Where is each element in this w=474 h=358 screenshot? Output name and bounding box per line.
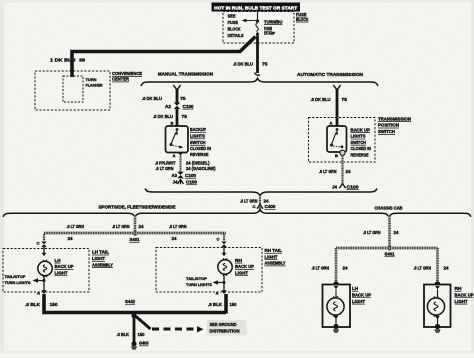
svg-text:G408: G408: [139, 341, 149, 346]
svg-text:24: 24: [172, 236, 178, 241]
wire .8 DK BLU 75 from fuse (thick) with end curl: [256, 36, 259, 73]
svg-text:B: B: [171, 121, 174, 126]
wire .8 LT GRN 24 (automatic output): [341, 155, 343, 183]
connector pin C (LH): [41, 242, 47, 248]
chassis RH back up light housing: [424, 285, 451, 328]
svg-text:.8 LT GRN: .8 LT GRN: [240, 198, 258, 203]
svg-text:ASSEMBLY: ASSEMBLY: [265, 261, 286, 266]
svg-text:C100: C100: [183, 104, 195, 109]
fuse TURN/BU 15 AMP element: [257, 12, 259, 22]
brace merging manual/automatic into one wire: [145, 189, 377, 196]
wire .8 LT GRN 24 to chassis LH lamp: [335, 248, 338, 283]
svg-text:15 AMP: 15 AMP: [264, 31, 275, 35]
wire .8 DK BLU 75 below C100: [176, 109, 179, 127]
svg-text:.8 LT GRN: .8 LT GRN: [312, 266, 330, 271]
svg-text:BACK UP: BACK UP: [55, 264, 74, 269]
svg-text:TURN: TURN: [86, 77, 97, 82]
svg-text:BACK UP: BACK UP: [351, 127, 371, 132]
wire drop to RH tail lamp: [223, 234, 225, 241]
svg-text:SWITCH: SWITCH: [190, 140, 206, 145]
svg-text:24: 24: [68, 236, 74, 241]
svg-text:LIGHT: LIGHT: [235, 270, 248, 275]
svg-text:75: 75: [262, 62, 268, 67]
svg-text:BACK UP: BACK UP: [352, 292, 371, 297]
svg-text:TURN/BU: TURN/BU: [264, 19, 283, 24]
wire: 1 DK BLU 38 feed to convenience center (thick): [72, 37, 256, 78]
convenience center dashed box: [35, 71, 110, 110]
wire below RH lamp with tail/stop branch node: [223, 274, 225, 291]
svg-text:TURN LIGHTS: TURN LIGHTS: [5, 280, 31, 285]
chassis RH lamp terminals and bulb: [435, 281, 440, 285]
power feed banner: HOT IN RUN, BULB TEST OR START: [212, 3, 301, 12]
svg-text:CLOSED IN: CLOSED IN: [351, 146, 372, 151]
splice S401 (chassis cab): [387, 246, 392, 251]
svg-text:CENTER: CENTER: [112, 77, 130, 82]
LH tail light assembly dashed box: [3, 249, 89, 293]
svg-text:RH: RH: [455, 286, 462, 291]
svg-text:75: 75: [342, 97, 348, 102]
svg-text:J4: J4: [173, 179, 179, 184]
note SEE GROUND DISTRIBUTION: [207, 320, 247, 336]
svg-text:POSITION: POSITION: [378, 123, 399, 128]
svg-text:REVERSE: REVERSE: [190, 152, 209, 157]
svg-text:SPORTSIDE, FLEETSIDE/WIDESIDE: SPORTSIDE, FLEETSIDE/WIDESIDE: [99, 204, 176, 209]
wire drop to LH tail lamp: [43, 234, 45, 241]
svg-text:LIGHTS: LIGHTS: [190, 134, 205, 139]
ground wire .8 BLK 150 from RH lamp (thick): [224, 294, 228, 314]
connector pin C (RH): [221, 242, 227, 248]
pointer from note to fuse: [246, 20, 258, 22]
svg-text:38: 38: [79, 58, 86, 63]
wire .8 PPL/WHT / .8 LT GRN (manual output): [180, 156, 182, 173]
svg-text:.8 LT GRN: .8 LT GRN: [67, 224, 85, 229]
connector C100 pin J4 (manual): [178, 180, 184, 184]
svg-text:A: A: [37, 290, 40, 295]
ground wire .8 BLK 150 from LH lamp (thick): [44, 294, 226, 313]
svg-text:ASSEMBLY: ASSEMBLY: [92, 262, 113, 267]
branch arrow to RH tail/stop turn lights: [214, 282, 224, 284]
svg-text:TAIL/STOP: TAIL/STOP: [186, 276, 207, 281]
svg-text:24: 24: [346, 169, 352, 174]
svg-text:BLOCK: BLOCK: [296, 17, 309, 22]
svg-text:24 (DIESEL): 24 (DIESEL): [186, 160, 210, 165]
wire .8 LT GRN 24 to C400: [259, 195, 261, 211]
svg-text:SEE: SEE: [228, 14, 236, 19]
svg-text:C100: C100: [185, 173, 197, 178]
svg-text:SEE GROUND: SEE GROUND: [210, 322, 237, 327]
splice S442: [131, 313, 136, 318]
svg-text:CLOSED IN: CLOSED IN: [190, 146, 211, 151]
RH tail light assembly dashed box: [156, 248, 262, 293]
terminal into LH backup lamp: [42, 253, 47, 256]
svg-text:DISTRIBUTION: DISTRIBUTION: [210, 329, 240, 334]
chassis cab crossover wire: [336, 247, 438, 250]
svg-text:MANUAL TRANSMISSION: MANUAL TRANSMISSION: [158, 71, 214, 76]
svg-text:C100: C100: [186, 179, 198, 184]
svg-text:BACKUP: BACKUP: [190, 127, 206, 132]
switch blade (automatic): [336, 128, 339, 131]
svg-text:FLASHER: FLASHER: [86, 83, 103, 88]
svg-text:.8 DK BLU: .8 DK BLU: [142, 96, 162, 101]
backup lights switch box (automatic): [327, 126, 347, 152]
svg-text:.8 DK BLU: .8 DK BLU: [153, 114, 173, 119]
svg-text:24: 24: [264, 198, 270, 203]
svg-text:.8 BLK: .8 BLK: [208, 302, 222, 307]
svg-text:CONVENIENCE: CONVENIENCE: [112, 71, 142, 76]
svg-text:LIGHT: LIGHT: [92, 256, 105, 261]
svg-text:A2: A2: [165, 104, 172, 109]
svg-text:BACK UP: BACK UP: [235, 264, 254, 269]
manual branch wire top hook: [174, 85, 181, 90]
svg-text:RH TAIL: RH TAIL: [265, 248, 283, 253]
svg-text:TURN LIGHTS: TURN LIGHTS: [186, 282, 212, 287]
transmission position switch dashed box: [309, 118, 376, 163]
RH backup light bulb: [218, 260, 232, 274]
automatic branch wire top hook: [334, 85, 341, 90]
svg-text:C: C: [253, 204, 256, 209]
backup lights switch box (manual): [166, 126, 189, 153]
wire .8 LT GRN 24 drop to S401 (chassis cab): [388, 216, 391, 247]
svg-text:S401: S401: [385, 251, 396, 256]
brace splitting to sportside and chassis cab: [3, 210, 471, 218]
svg-text:150: 150: [50, 302, 59, 307]
LH backup light bulb: [38, 261, 52, 275]
svg-text:DETAILS: DETAILS: [228, 33, 244, 38]
svg-text:24 (GASOLINE): 24 (GASOLINE): [186, 166, 216, 171]
svg-text:J4: J4: [332, 184, 338, 189]
svg-text:75: 75: [182, 114, 188, 119]
brace splitting to manual / automatic branches: [141, 78, 378, 86]
svg-text:C400: C400: [265, 204, 277, 209]
svg-text:75: 75: [180, 96, 186, 101]
svg-text:.8 LT GRN: .8 LT GRN: [112, 224, 130, 229]
switch blade (manual): [176, 128, 179, 131]
connector C400 pin C: [257, 205, 263, 209]
svg-text:.8 PPL/WHT: .8 PPL/WHT: [155, 160, 176, 165]
svg-text:150: 150: [138, 332, 146, 337]
svg-text:A: A: [216, 290, 219, 295]
svg-text:LH: LH: [55, 258, 61, 263]
svg-text:REVERSE: REVERSE: [351, 152, 369, 157]
sportside rear crossover wire .8 LT GRN: [44, 232, 226, 235]
svg-text:S401: S401: [130, 237, 141, 242]
svg-text:BACK UP: BACK UP: [455, 292, 474, 297]
svg-text:24: 24: [444, 266, 450, 271]
svg-text:.8 BLK: .8 BLK: [25, 302, 40, 307]
svg-text:.8 DK BLU: .8 DK BLU: [233, 62, 253, 67]
svg-text:FUSE: FUSE: [228, 20, 239, 25]
svg-text:LIGHT: LIGHT: [455, 299, 468, 304]
svg-text:.8 LT GRN: .8 LT GRN: [156, 166, 174, 171]
connector C100 pin A2: [174, 103, 181, 110]
svg-text:TRANSMISSION: TRANSMISSION: [378, 116, 411, 121]
wire .8 LT GRN 24 to chassis RH lamp: [436, 248, 439, 283]
svg-text:LIGHTS: LIGHTS: [351, 134, 366, 139]
svg-text:24: 24: [343, 266, 349, 271]
branch arrow to LH tail/stop turn lights: [34, 280, 44, 282]
svg-text:AUTOMATIC TRANSMISSION: AUTOMATIC TRANSMISSION: [297, 72, 364, 77]
connector C100 pin A3: [177, 172, 184, 179]
svg-text:LIGHT: LIGHT: [55, 270, 68, 275]
svg-text:.8 BLK: .8 BLK: [117, 332, 130, 337]
turn flasher dashed box: [63, 76, 83, 102]
svg-text:RH: RH: [235, 258, 242, 263]
svg-text:SWITCH: SWITCH: [351, 140, 367, 145]
terminal into RH backup lamp: [222, 253, 227, 256]
svg-text:C: C: [217, 236, 220, 241]
ground G408: [131, 341, 136, 346]
svg-text:1 DK BLU: 1 DK BLU: [50, 58, 76, 63]
svg-text:LIGHT: LIGHT: [352, 299, 365, 304]
svg-text:A: A: [173, 153, 176, 158]
dashed link to ground distribution: [136, 317, 151, 330]
svg-text:FUSE: FUSE: [264, 26, 272, 31]
svg-text:LH TAIL: LH TAIL: [92, 250, 109, 255]
svg-text:TAIL/STOP: TAIL/STOP: [5, 274, 26, 279]
svg-text:HOT IN RUN, BULB TEST OR START: HOT IN RUN, BULB TEST OR START: [214, 5, 297, 10]
svg-text:24: 24: [394, 230, 400, 235]
svg-text:C: C: [37, 240, 40, 245]
svg-text:BLOCK: BLOCK: [228, 26, 241, 31]
svg-text:24: 24: [139, 224, 145, 229]
svg-text:S442: S442: [125, 299, 136, 304]
svg-text:A: A: [330, 121, 333, 126]
svg-text:LH: LH: [352, 286, 358, 291]
svg-text:.8 DK BLU: .8 DK BLU: [311, 97, 331, 102]
svg-text:CHASSIS CAB: CHASSIS CAB: [375, 205, 403, 210]
svg-text:SWITCH: SWITCH: [378, 129, 395, 134]
svg-text:A3: A3: [172, 173, 178, 178]
wire .8 LT GRN 24 drop to S401 (sportside): [134, 216, 137, 233]
svg-text:150: 150: [230, 302, 238, 307]
svg-text:.8 LT GRN: .8 LT GRN: [169, 224, 187, 229]
wire below LH lamp with tail/stop branch node: [43, 275, 45, 291]
svg-text:LIGHT: LIGHT: [265, 254, 278, 259]
svg-text:.8 LT GRN: .8 LT GRN: [414, 266, 432, 271]
svg-text:B: B: [335, 153, 338, 158]
ground wire .8 BLK 150 to G408 (thick): [133, 316, 136, 343]
fuse block dashed box: [223, 12, 294, 44]
chassis LH back up light housing: [323, 285, 351, 328]
connector C100 pin J4 (automatic): [339, 184, 345, 188]
splice S401 (sportside): [133, 231, 138, 236]
chassis LH lamp terminals and bulb: [333, 281, 338, 285]
svg-text:.8 LT GRN: .8 LT GRN: [319, 169, 337, 174]
svg-text:.8 LT GRN: .8 LT GRN: [363, 230, 381, 235]
svg-text:C100: C100: [347, 184, 360, 189]
